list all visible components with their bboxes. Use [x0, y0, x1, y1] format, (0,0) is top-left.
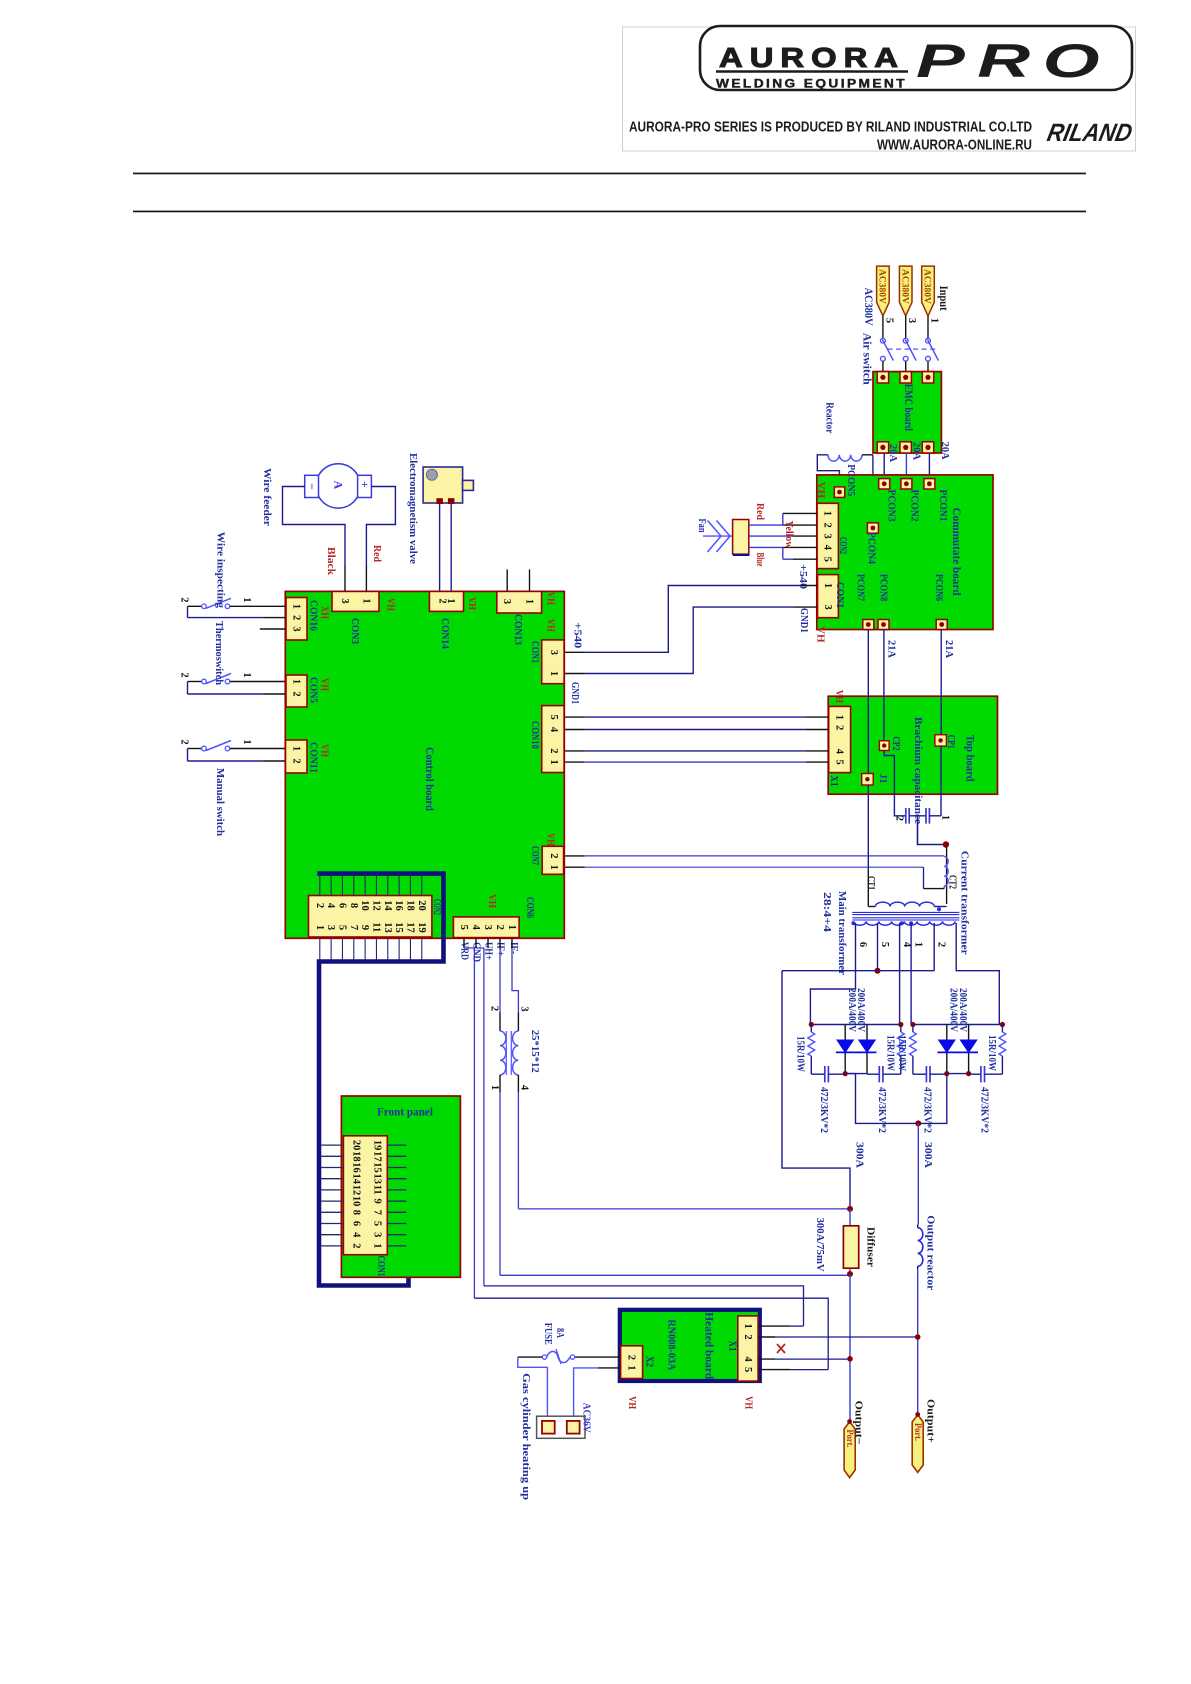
svg-text:Gas cylinder heating up: Gas cylinder heating up [520, 1373, 532, 1500]
svg-text:3: 3 [482, 925, 493, 930]
svg-text:21A: 21A [886, 640, 897, 658]
svg-text:J1: J1 [877, 774, 888, 784]
svg-text:2: 2 [626, 1355, 637, 1360]
svg-text:4: 4 [548, 727, 559, 733]
svg-text:5: 5 [822, 557, 833, 562]
svg-text:15R/10W: 15R/10W [794, 1036, 805, 1072]
svg-text:15R/10W: 15R/10W [986, 1035, 997, 1071]
svg-text:CON10: CON10 [529, 721, 540, 749]
svg-text:Brachium capacitance: Brachium capacitance [912, 717, 924, 824]
svg-text:2: 2 [822, 523, 833, 528]
svg-text:2: 2 [894, 816, 905, 821]
svg-text:25*15*12: 25*15*12 [529, 1030, 540, 1073]
svg-text:EMC board: EMC board [902, 384, 914, 431]
svg-text:1: 1 [241, 597, 252, 602]
svg-text:13: 13 [372, 1174, 383, 1185]
svg-text:28:4+4: 28:4+4 [821, 892, 833, 933]
svg-text:1: 1 [241, 739, 252, 744]
svg-text:VH: VH [545, 592, 556, 605]
svg-text:PCON7: PCON7 [854, 574, 865, 601]
svg-text:8A: 8A [554, 1328, 565, 1339]
svg-text:1: 1 [241, 672, 252, 677]
svg-text:Thermoswitch: Thermoswitch [213, 621, 225, 685]
svg-text:2: 2 [742, 1334, 753, 1339]
svg-text:3: 3 [548, 650, 559, 655]
svg-text:CON1: CON1 [834, 582, 845, 608]
svg-text:5: 5 [883, 318, 894, 323]
svg-text:Output+: Output+ [924, 1399, 936, 1443]
svg-text:5: 5 [879, 942, 890, 947]
svg-text:2: 2 [291, 691, 302, 696]
svg-text:2: 2 [494, 925, 505, 930]
svg-text:2: 2 [548, 748, 559, 753]
svg-text:CON1: CON1 [375, 1256, 386, 1277]
svg-text:2: 2 [179, 597, 190, 602]
svg-text:1: 1 [291, 604, 302, 609]
svg-text:8: 8 [351, 1210, 362, 1215]
svg-text:21A: 21A [943, 640, 954, 658]
svg-text:AC380V: AC380V [899, 269, 909, 304]
svg-text:16: 16 [351, 1162, 362, 1173]
svg-text:Air switch: Air switch [861, 333, 873, 386]
svg-text:11: 11 [370, 922, 381, 932]
svg-text:8: 8 [348, 903, 359, 908]
svg-text:VH: VH [319, 678, 330, 691]
svg-text:Top board: Top board [963, 735, 975, 783]
svg-text:20A: 20A [887, 444, 898, 462]
svg-text:A: A [332, 481, 346, 490]
svg-text:FUSE: FUSE [542, 1323, 553, 1345]
svg-text:VH: VH [545, 619, 556, 632]
svg-text:RILAND: RILAND [1045, 119, 1135, 147]
svg-text:PCON4: PCON4 [866, 532, 877, 565]
svg-text:472/3KV*2: 472/3KV*2 [818, 1087, 829, 1133]
svg-text:PCON6: PCON6 [933, 574, 944, 601]
svg-text:3: 3 [822, 534, 833, 539]
svg-text:1: 1 [360, 598, 371, 603]
svg-text:4: 4 [325, 903, 336, 909]
svg-text:IF-: IF- [508, 942, 519, 954]
svg-text:300A/75mV: 300A/75mV [814, 1218, 825, 1272]
svg-text:CON7: CON7 [529, 846, 540, 865]
svg-text:Output−: Output− [852, 1401, 864, 1445]
svg-text:CON1: CON1 [529, 641, 540, 663]
svg-text:3: 3 [372, 1232, 383, 1237]
svg-text:14: 14 [351, 1174, 362, 1185]
svg-text:Red: Red [754, 503, 765, 520]
svg-text:20A: 20A [911, 442, 922, 460]
svg-text:−: − [305, 483, 319, 490]
svg-text:5: 5 [742, 1367, 753, 1372]
svg-text:20: 20 [416, 900, 427, 911]
svg-text:5: 5 [548, 715, 559, 720]
svg-text:CT2: CT2 [947, 875, 958, 889]
svg-text:CON14: CON14 [439, 618, 450, 650]
svg-text:Commutate board: Commutate board [950, 508, 962, 597]
svg-text:4: 4 [351, 1232, 362, 1238]
svg-text:VH: VH [486, 894, 497, 908]
svg-text:6: 6 [351, 1221, 362, 1226]
svg-text:7: 7 [348, 925, 359, 930]
svg-text:3: 3 [501, 599, 512, 604]
svg-text:3: 3 [519, 1006, 530, 1011]
svg-text:2: 2 [314, 903, 325, 908]
svg-text:18: 18 [351, 1151, 362, 1162]
svg-text:1: 1 [548, 760, 559, 765]
svg-text:10: 10 [359, 900, 370, 911]
svg-text:300A: 300A [853, 1142, 864, 1168]
svg-text:RN008-03A: RN008-03A [666, 1319, 678, 1370]
svg-text:3: 3 [906, 318, 917, 323]
svg-text:1: 1 [626, 1365, 637, 1370]
svg-text:200A/400V: 200A/400V [957, 988, 968, 1033]
svg-text:1: 1 [314, 925, 325, 930]
svg-text:5: 5 [834, 760, 845, 765]
svg-text:3: 3 [339, 598, 350, 603]
svg-text:Wire feeder: Wire feeder [261, 468, 273, 526]
svg-text:PCON1: PCON1 [937, 490, 948, 522]
svg-text:CON2: CON2 [431, 899, 442, 915]
svg-text:VH: VH [466, 597, 477, 610]
svg-text:4: 4 [519, 1085, 530, 1091]
svg-text:15: 15 [393, 922, 404, 933]
svg-text:Input: Input [937, 286, 949, 311]
svg-text:13: 13 [382, 922, 393, 933]
svg-text:VH: VH [833, 690, 844, 703]
svg-text:VH: VH [815, 482, 827, 499]
svg-text:1: 1 [445, 598, 456, 603]
svg-text:300A: 300A [922, 1142, 933, 1168]
svg-text:17: 17 [404, 922, 415, 933]
svg-text:Manual switch: Manual switch [214, 768, 226, 836]
svg-text:4: 4 [822, 545, 833, 551]
svg-text:Yellow: Yellow [783, 521, 794, 549]
svg-text:AURORA-PRO SERIES IS PRODUCED: AURORA-PRO SERIES IS PRODUCED BY RILAND … [629, 120, 1032, 136]
svg-text:1: 1 [506, 925, 517, 930]
svg-text:+: + [358, 481, 372, 488]
svg-text:CON6: CON6 [524, 897, 535, 918]
svg-text:472/3KV*2: 472/3KV*2 [876, 1087, 887, 1133]
svg-text:12: 12 [370, 900, 381, 911]
svg-text:2: 2 [179, 739, 190, 744]
svg-text:XH: XH [319, 606, 330, 619]
svg-text:16: 16 [393, 900, 404, 911]
svg-text:1: 1 [548, 671, 559, 676]
svg-text:2: 2 [548, 853, 559, 858]
svg-text:Fan: Fan [696, 519, 707, 533]
svg-text:20A: 20A [939, 442, 950, 460]
svg-text:WWW.AURORA-ONLINE.RU: WWW.AURORA-ONLINE.RU [877, 138, 1032, 154]
svg-text:AURORA: AURORA [719, 42, 905, 73]
svg-text:PCON3: PCON3 [885, 490, 896, 522]
svg-text:CON11: CON11 [308, 742, 319, 773]
svg-text:VH: VH [815, 626, 827, 643]
svg-text:1: 1 [913, 942, 924, 947]
svg-text:17: 17 [372, 1151, 383, 1162]
svg-text:1: 1 [822, 511, 833, 516]
svg-text:CP1: CP1 [945, 735, 956, 749]
svg-text:3: 3 [325, 925, 336, 930]
svg-text:12: 12 [351, 1185, 362, 1196]
svg-text:19: 19 [416, 922, 427, 933]
svg-text:18: 18 [404, 900, 415, 911]
svg-text:Wire inspecting: Wire inspecting [214, 532, 226, 609]
svg-text:CON5: CON5 [308, 677, 319, 703]
svg-text:Port.: Port. [913, 1423, 923, 1441]
svg-text:200A/400V: 200A/400V [855, 988, 866, 1033]
svg-text:2: 2 [291, 758, 302, 763]
svg-text:AC380V: AC380V [862, 288, 876, 326]
svg-text:AC380V: AC380V [877, 269, 887, 304]
svg-text:4: 4 [470, 925, 481, 931]
svg-text:VH: VH [545, 833, 556, 846]
svg-text:Main transformer: Main transformer [836, 891, 848, 975]
svg-text:Heated board: Heated board [703, 1312, 715, 1380]
svg-text:11: 11 [372, 1185, 383, 1195]
svg-text:3: 3 [822, 605, 833, 610]
svg-text:AC380V: AC380V [922, 269, 932, 304]
svg-text:GND1: GND1 [569, 682, 580, 704]
svg-text:PRO: PRO [916, 34, 1112, 87]
svg-text:X1: X1 [727, 1341, 738, 1352]
svg-text:472/3KV*2: 472/3KV*2 [922, 1087, 933, 1133]
svg-text:5: 5 [458, 925, 469, 930]
svg-text:+540: +540 [572, 622, 583, 648]
svg-text:1: 1 [291, 746, 302, 751]
svg-text:1: 1 [834, 715, 845, 720]
svg-text:VH: VH [626, 1396, 637, 1409]
svg-text:15R/10W: 15R/10W [896, 1035, 907, 1071]
svg-text:2: 2 [291, 615, 302, 620]
svg-text:VH: VH [319, 744, 330, 757]
svg-text:20: 20 [351, 1140, 362, 1151]
svg-text:1: 1 [524, 599, 535, 604]
svg-text:CON13: CON13 [512, 614, 523, 645]
svg-text:1: 1 [822, 583, 833, 588]
svg-text:2: 2 [834, 725, 845, 730]
svg-text:9: 9 [359, 925, 370, 930]
svg-text:Electromagnetism valve: Electromagnetism valve [407, 453, 419, 564]
svg-text:Black: Black [325, 547, 336, 575]
svg-text:Front panel: Front panel [377, 1107, 433, 1119]
svg-text:2: 2 [489, 1006, 500, 1011]
svg-text:1: 1 [929, 318, 940, 323]
svg-text:AC36V: AC36V [580, 1403, 591, 1433]
svg-text:4: 4 [742, 1357, 753, 1363]
svg-text:472/3KV*2: 472/3KV*2 [978, 1087, 989, 1133]
svg-text:3: 3 [291, 626, 302, 631]
svg-text:PCON8: PCON8 [878, 574, 889, 601]
svg-text:1: 1 [548, 865, 559, 870]
svg-text:X1: X1 [828, 776, 839, 787]
svg-text:Current transformer: Current transformer [959, 851, 971, 955]
svg-text:PCON2: PCON2 [909, 490, 920, 522]
svg-text:X2: X2 [644, 1356, 655, 1367]
svg-text:19: 19 [372, 1140, 383, 1151]
svg-text:CP2: CP2 [890, 736, 901, 750]
svg-text:5: 5 [372, 1221, 383, 1226]
svg-text:9: 9 [372, 1199, 383, 1204]
svg-text:14: 14 [382, 900, 393, 911]
svg-text:6: 6 [857, 942, 868, 947]
svg-text:VH: VH [385, 598, 396, 611]
svg-text:6: 6 [336, 903, 347, 908]
svg-text:CON3: CON3 [349, 618, 360, 644]
svg-text:1: 1 [742, 1324, 753, 1329]
svg-text:Blue: Blue [754, 553, 765, 567]
svg-text:4: 4 [834, 749, 845, 755]
svg-text:5: 5 [336, 925, 347, 930]
svg-text:10: 10 [351, 1196, 362, 1207]
svg-text:1: 1 [372, 1243, 383, 1248]
svg-text:2: 2 [936, 942, 947, 947]
svg-text:15: 15 [372, 1162, 383, 1173]
svg-text:15R/10W: 15R/10W [885, 1035, 896, 1071]
svg-text:Reactor: Reactor [824, 402, 836, 433]
svg-text:Output reactor: Output reactor [924, 1215, 936, 1290]
svg-text:CON16: CON16 [308, 600, 319, 631]
svg-text:7: 7 [372, 1210, 383, 1215]
svg-text:Control board: Control board [423, 747, 435, 812]
svg-text:1: 1 [940, 815, 951, 820]
svg-text:1: 1 [489, 1085, 500, 1090]
svg-text:CT1: CT1 [865, 876, 876, 890]
svg-text:Red: Red [371, 545, 382, 562]
svg-text:Diffuser: Diffuser [865, 1227, 876, 1267]
svg-text:VH: VH [742, 1396, 753, 1409]
svg-text:4: 4 [901, 942, 912, 948]
svg-text:2: 2 [179, 672, 190, 677]
svg-text:GND1: GND1 [798, 608, 809, 633]
svg-text:WELDING EQUIPMENT: WELDING EQUIPMENT [716, 79, 907, 91]
svg-text:1: 1 [291, 679, 302, 684]
svg-text:2: 2 [351, 1243, 362, 1248]
svg-text:CON2: CON2 [837, 537, 848, 554]
svg-text:PCON5: PCON5 [845, 464, 856, 496]
